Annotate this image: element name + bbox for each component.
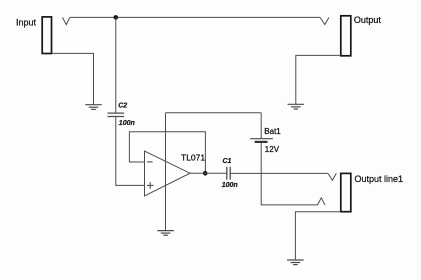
svg-text:C2: C2 [118,103,127,110]
jack J1 tip contact [62,17,69,24]
jack J3 tip contact [328,173,336,180]
svg-text:C1: C1 [223,158,232,165]
svg-text:100n: 100n [222,182,238,189]
wire battery bottom to jack ring [261,143,317,205]
svg-text:Output line1: Output line1 [355,174,404,184]
node output dot [203,171,208,176]
wire Output sleeve to ground [296,55,341,104]
wire junction down to C2 [115,17,117,113]
wire feedback loop [129,132,205,174]
wire Output line1 sleeve to ground [295,212,340,260]
jack J1 Input [42,17,51,54]
wire power rail horizontal to battery [166,112,262,114]
battery Bat1 plates [250,138,273,140]
wire op-amp output to C1 [190,172,227,174]
jack J2 tip contact [320,17,329,24]
op-amp plus sign [147,182,154,189]
capacitor C2 plates [108,113,125,116]
svg-text:100n: 100n [119,120,135,127]
wire C2 to non-inverting input [116,117,145,186]
wire C1 to Output line1 tip [230,172,328,174]
wire top net from Input tip to Output tip [70,16,320,18]
ground GND1 (input) [85,105,102,110]
svg-text:TL071: TL071 [181,153,205,163]
node junction top [114,15,119,20]
op-amp minus sign [147,161,153,163]
svg-text:Input: Input [16,17,37,27]
ground GND3 (op-amp V-) [157,231,174,236]
wire op-amp power rail vertical [165,113,167,231]
jack J2 Output body [341,16,351,56]
wire Input sleeve to ground [52,53,94,104]
svg-text:Output: Output [354,15,382,25]
jack J3 ring contact caret [318,198,326,205]
wire battery top lead [260,113,262,139]
svg-text:Bat1: Bat1 [264,127,281,136]
jack J3 Output line1 body [341,173,351,211]
svg-text:12V: 12V [265,145,280,154]
ground GND2 (output) [288,104,305,109]
capacitor C1 plates [227,167,230,180]
op-amp U1 triangle [145,151,191,196]
ground GND4 (output line1) [287,260,304,265]
